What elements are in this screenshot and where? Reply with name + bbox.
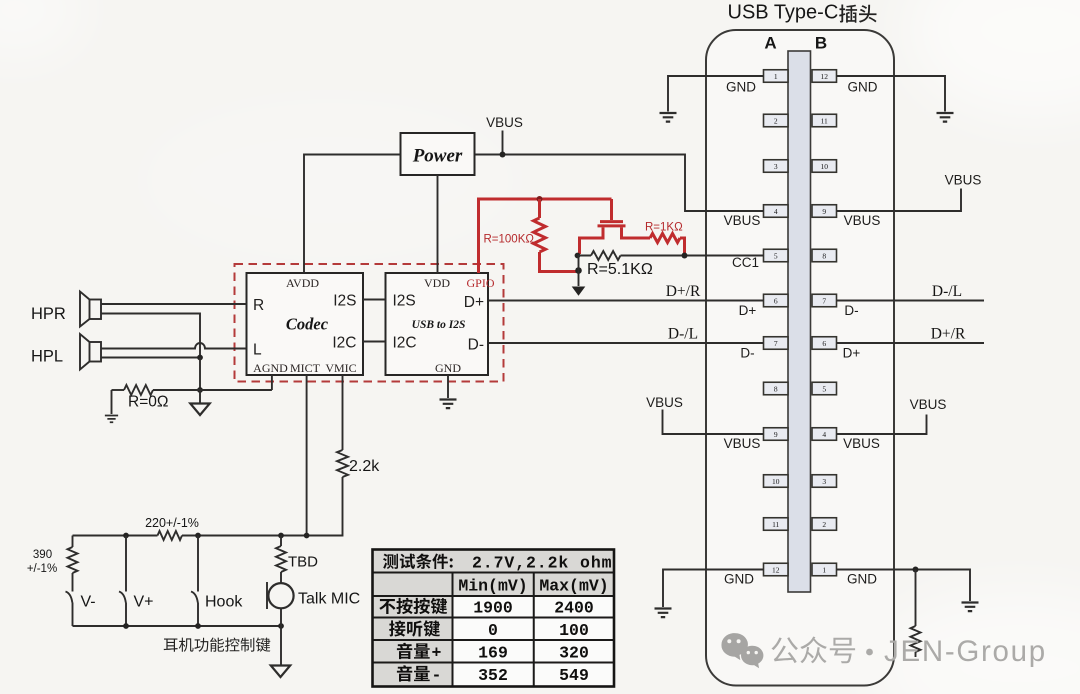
junction Hook top <box>195 533 201 539</box>
wire HPR top to R pin <box>101 303 247 305</box>
pin B9 <box>812 205 837 218</box>
svg-text:JEN-Group: JEN-Group <box>884 635 1047 668</box>
svg-text:+/-1%: +/-1% <box>27 563 57 575</box>
ground R0 (small iec) <box>105 416 118 423</box>
pin B11 <box>812 114 837 127</box>
svg-text:MICT: MICT <box>290 361 321 375</box>
wire I2S between blocks <box>363 299 386 301</box>
svg-text:AVDD: AVDD <box>286 276 319 290</box>
svg-text:Max(mV): Max(mV) <box>539 577 608 596</box>
svg-text:D+/R: D+/R <box>666 283 701 300</box>
pin A12 <box>764 563 789 576</box>
wire VBUS B4 <box>837 415 927 435</box>
svg-text:220+/-1%: 220+/-1% <box>145 516 199 530</box>
wire D- row A7 <box>488 342 764 344</box>
wire down to agnd rail <box>199 358 201 391</box>
pin B7 <box>812 294 837 307</box>
text row 接听键 <box>389 620 440 636</box>
ground A1 <box>660 113 677 122</box>
svg-text:390: 390 <box>33 549 52 561</box>
svg-text:549: 549 <box>559 666 589 685</box>
usb-to-i2s U2 box <box>386 273 489 375</box>
text watermark 公众号 <box>772 637 856 664</box>
wire power to VDD <box>437 175 439 273</box>
red wire GPIO riser <box>479 199 612 273</box>
speaker HPR <box>80 292 101 327</box>
text row 不按按键 <box>379 598 447 614</box>
svg-text:AGND: AGND <box>253 361 288 375</box>
svg-text:V-: V- <box>81 594 96 611</box>
junction hp <box>197 355 203 361</box>
pin A10 <box>764 475 789 488</box>
resistor R=1K red <box>650 234 680 243</box>
table outer border <box>373 550 615 687</box>
text label 耳机功能控制键 <box>164 638 271 652</box>
pin A4 <box>764 205 789 218</box>
svg-text:+: + <box>432 644 442 663</box>
wire U2 GND to ground <box>447 375 449 398</box>
svg-text:GND: GND <box>435 361 461 375</box>
resistor bottom right <box>915 570 917 658</box>
pin B5 <box>812 382 837 395</box>
svg-text:D+: D+ <box>739 303 757 318</box>
svg-text:TBD: TBD <box>288 554 318 571</box>
svg-text:HPL: HPL <box>31 348 63 366</box>
svg-text:Hook: Hook <box>205 594 243 611</box>
svg-text:5: 5 <box>822 384 826 393</box>
wire I2C between blocks <box>363 341 386 343</box>
svg-text:4: 4 <box>822 430 826 439</box>
pin A5 <box>764 249 789 262</box>
svg-text:10: 10 <box>820 162 828 171</box>
header band <box>373 550 615 573</box>
svg-text:VDD: VDD <box>424 276 450 290</box>
svg-text:6: 6 <box>822 339 826 348</box>
wire D+ B6 <box>837 342 985 344</box>
watermark dot <box>866 649 873 656</box>
svg-text:-: - <box>432 666 442 685</box>
row label column <box>373 596 453 687</box>
pin B6 <box>812 337 837 350</box>
resistor 220 <box>158 531 183 540</box>
ground B1 <box>962 603 979 612</box>
wire GND A12 <box>663 570 764 608</box>
svg-text:2.2k: 2.2k <box>349 458 380 475</box>
svg-text:7: 7 <box>822 296 826 305</box>
switch V+ <box>119 536 126 627</box>
svg-text:Power: Power <box>412 146 463 167</box>
svg-text:1: 1 <box>774 72 778 81</box>
pin A1 <box>764 70 789 83</box>
ground B12 <box>937 113 954 122</box>
wire VBUS label tick <box>502 131 504 155</box>
svg-text:1: 1 <box>822 565 826 574</box>
junction agnd rail <box>197 387 203 393</box>
wechat icon <box>721 633 763 668</box>
svg-text:100: 100 <box>559 621 589 640</box>
switch Hook <box>191 536 198 627</box>
svg-text:9: 9 <box>774 430 778 439</box>
svg-text:2400: 2400 <box>554 599 594 618</box>
junction V+ top <box>123 533 129 539</box>
svg-text:D-: D- <box>468 337 484 354</box>
junction MICT rail <box>304 533 310 539</box>
resistor R=0 <box>112 390 272 414</box>
junction 5.1K left <box>575 253 581 259</box>
svg-text:I2S: I2S <box>393 293 416 310</box>
pin A8 <box>764 382 789 395</box>
svg-text:D-: D- <box>740 346 754 361</box>
svg-text:D+: D+ <box>464 294 484 311</box>
mic MK1 <box>268 583 293 608</box>
junction B1 wire <box>913 567 919 573</box>
svg-text:320: 320 <box>559 644 589 663</box>
junction V+ bottom <box>123 623 129 629</box>
svg-text:GND: GND <box>726 80 756 95</box>
svg-text:R=5.1KΩ: R=5.1KΩ <box>587 261 653 278</box>
pin A7 <box>764 337 789 350</box>
junction CC1 wire <box>682 253 688 259</box>
svg-text:USB Type-C: USB Type-C <box>728 2 839 24</box>
svg-text:D-: D- <box>844 303 858 318</box>
junction red/black <box>575 267 582 274</box>
switch V- <box>66 592 73 627</box>
svg-text:0: 0 <box>488 621 498 640</box>
svg-text:2.7V,2.2k ohm: 2.7V,2.2k ohm <box>472 554 612 573</box>
wire Power to VBUS pin A4 <box>475 155 764 212</box>
svg-text:VBUS: VBUS <box>843 436 880 451</box>
svg-text:VBUS: VBUS <box>486 115 523 130</box>
junction Hook bottom <box>195 623 201 629</box>
wire D+ row A6 <box>488 300 764 302</box>
svg-text:V+: V+ <box>134 594 154 611</box>
svg-text:CC1: CC1 <box>732 255 759 270</box>
svg-text:12: 12 <box>820 72 828 81</box>
svg-text:3: 3 <box>822 477 826 486</box>
svg-text:VBUS: VBUS <box>910 397 947 412</box>
codec U1 box <box>247 273 364 375</box>
svg-text:A: A <box>764 34 776 53</box>
svg-text:6: 6 <box>774 296 778 305</box>
svg-text:7: 7 <box>774 339 778 348</box>
pin A3 <box>764 160 789 173</box>
svg-text:VBUS: VBUS <box>945 173 982 188</box>
svg-text:11: 11 <box>772 520 779 529</box>
svg-text:HPR: HPR <box>31 305 66 323</box>
ground A12 <box>655 609 672 618</box>
dashed module boundary <box>235 264 504 382</box>
junction mic bottom <box>278 623 284 629</box>
svg-text:8: 8 <box>822 251 826 260</box>
top rail <box>73 535 343 537</box>
pin A11 <box>764 518 789 531</box>
svg-text:D-/L: D-/L <box>668 326 698 343</box>
svg-text:5: 5 <box>774 251 778 260</box>
wire GND B1 <box>837 570 971 602</box>
svg-text:GPIO: GPIO <box>466 276 494 290</box>
svg-text:1900: 1900 <box>473 599 513 618</box>
table grid <box>373 573 615 687</box>
ground q1 (filled triangle) <box>572 287 586 296</box>
wire power to AVDD <box>304 155 401 274</box>
svg-text:R=100KΩ: R=100KΩ <box>484 234 535 246</box>
junction VBUS/power <box>500 152 506 158</box>
wire AGND lead <box>271 375 273 390</box>
wire D- B7 <box>837 300 985 302</box>
svg-text:R=0Ω: R=0Ω <box>128 394 168 411</box>
pin B10 <box>812 160 837 173</box>
svg-text:2: 2 <box>822 520 826 529</box>
table background <box>373 550 615 687</box>
svg-text:D-/L: D-/L <box>932 283 962 300</box>
svg-text:VBUS: VBUS <box>724 213 761 228</box>
wire VBUS B9 <box>837 189 962 212</box>
connector outline <box>706 30 894 686</box>
wire MICT lead <box>306 375 308 536</box>
pin A2 <box>764 114 789 127</box>
svg-text:USB to I2S: USB to I2S <box>412 319 466 331</box>
svg-text:3: 3 <box>774 162 778 171</box>
svg-text:Codec: Codec <box>286 315 329 334</box>
svg-text:11: 11 <box>821 116 828 125</box>
pin B12 <box>812 70 837 83</box>
junction red <box>537 196 543 202</box>
svg-text:I2C: I2C <box>393 335 417 352</box>
wire GND B12 to ground <box>837 76 946 112</box>
ground mic (triangle) <box>271 666 290 678</box>
ground hp (triangle) <box>199 390 201 403</box>
svg-text:VBUS: VBUS <box>724 436 761 451</box>
resistor R=100K red <box>540 199 577 272</box>
svg-text:10: 10 <box>772 477 780 486</box>
pin B4 <box>812 428 837 441</box>
svg-text:I2S: I2S <box>333 293 356 310</box>
text row 音量+ <box>397 643 430 659</box>
svg-text:R: R <box>253 297 264 314</box>
svg-text:I2C: I2C <box>332 335 356 352</box>
svg-text:GND: GND <box>847 572 877 587</box>
svg-text:VBUS: VBUS <box>646 395 683 410</box>
subheader band <box>373 573 615 597</box>
connector tongue bar <box>788 51 811 592</box>
pin B2 <box>812 518 837 531</box>
svg-text:GND: GND <box>724 572 754 587</box>
wire VBUS A9 <box>663 410 764 435</box>
svg-text:12: 12 <box>772 565 780 574</box>
svg-text:Talk MIC: Talk MIC <box>298 591 360 608</box>
pin B3 <box>812 475 837 488</box>
wire GND A1 to ground <box>668 76 764 112</box>
pin B1 <box>812 563 837 576</box>
svg-text:8: 8 <box>774 384 778 393</box>
svg-text:D+: D+ <box>843 346 861 361</box>
svg-text:VBUS: VBUS <box>844 213 881 228</box>
svg-text:L: L <box>253 342 262 359</box>
transistor Q1 (red mosfet) <box>610 199 613 220</box>
text table header 测试条件 <box>383 554 453 570</box>
pin B8 <box>812 249 837 262</box>
bottom rail <box>73 625 282 627</box>
svg-text:Min(mV): Min(mV) <box>458 577 527 596</box>
power P1 box <box>401 133 475 175</box>
wire HPL bottom <box>101 357 200 359</box>
pin A9 <box>764 428 789 441</box>
speaker HPL <box>80 334 101 370</box>
svg-text:B: B <box>815 34 827 53</box>
svg-text:GND: GND <box>848 80 878 95</box>
resistor 390 <box>72 536 74 592</box>
ground U2 <box>440 400 457 409</box>
svg-text:VMIC: VMIC <box>325 361 356 375</box>
svg-text:9: 9 <box>822 207 826 216</box>
svg-text:169: 169 <box>478 644 508 663</box>
junction TBD top <box>278 533 284 539</box>
wire to ground q1 <box>578 256 580 287</box>
wire HPL top to L pin with hop <box>101 343 247 348</box>
resistor R=5.1K <box>578 255 764 257</box>
text title 插头 <box>839 5 876 23</box>
svg-text:352: 352 <box>478 666 508 685</box>
pin A6 <box>764 294 789 307</box>
svg-text:4: 4 <box>774 207 778 216</box>
svg-text:2: 2 <box>774 116 778 125</box>
resistor TBD <box>280 536 282 584</box>
wire VMIC lead + resistor 2.2k <box>307 375 343 536</box>
svg-text:D+/R: D+/R <box>931 326 966 343</box>
wire HPR bottom down <box>101 314 200 358</box>
text row 音量- <box>397 665 430 681</box>
svg-text:R=1KΩ: R=1KΩ <box>645 222 683 234</box>
